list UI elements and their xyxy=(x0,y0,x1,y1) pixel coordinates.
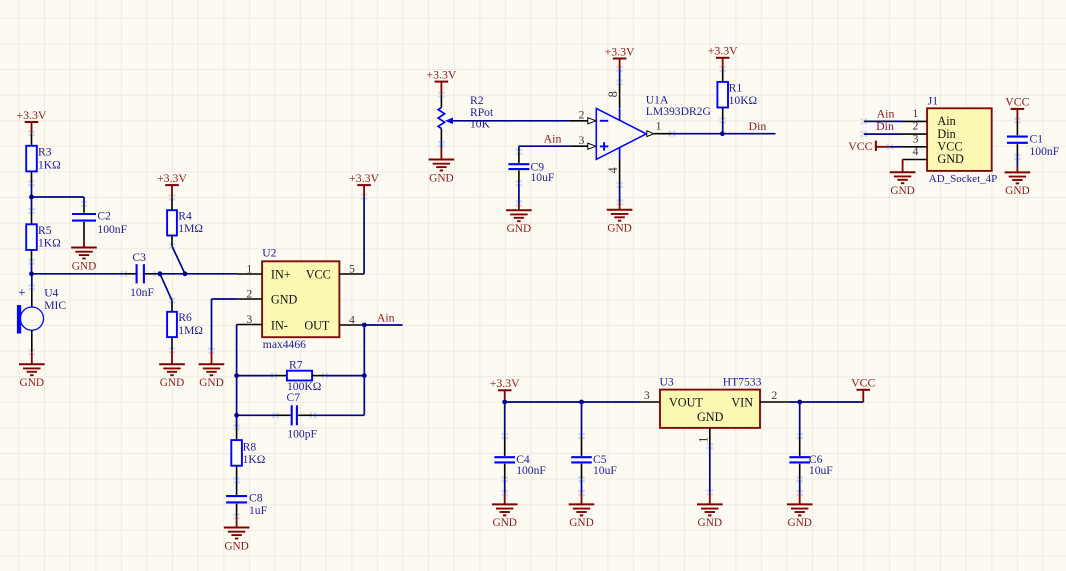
svg-text:GND: GND xyxy=(697,410,724,424)
svg-text:1MΩ: 1MΩ xyxy=(178,222,203,235)
svg-text:4: 4 xyxy=(606,166,620,173)
svg-text:IN-: IN- xyxy=(271,318,288,332)
svg-text:GND: GND xyxy=(271,292,298,306)
svg-text:GND: GND xyxy=(20,377,44,389)
svg-text:R1: R1 xyxy=(729,82,743,95)
svg-text:HT7533: HT7533 xyxy=(723,375,762,388)
svg-text:4: 4 xyxy=(912,144,918,158)
svg-text:100nF: 100nF xyxy=(516,464,546,477)
svg-text:GND: GND xyxy=(199,377,223,389)
svg-text:GND: GND xyxy=(507,223,531,235)
svg-text:1: 1 xyxy=(656,118,662,132)
svg-text:1KΩ: 1KΩ xyxy=(38,158,61,171)
svg-text:4: 4 xyxy=(349,313,355,327)
svg-text:Din: Din xyxy=(876,119,894,133)
svg-text:1KΩ: 1KΩ xyxy=(38,237,61,250)
svg-text:1: 1 xyxy=(246,262,252,276)
svg-text:U2: U2 xyxy=(262,246,276,259)
svg-text:GND: GND xyxy=(224,540,248,552)
svg-text:Ain: Ain xyxy=(544,132,562,146)
svg-text:+3.3V: +3.3V xyxy=(426,67,456,81)
svg-text:+3.3V: +3.3V xyxy=(605,44,635,58)
svg-text:1: 1 xyxy=(696,437,710,443)
svg-text:LM393DR2G: LM393DR2G xyxy=(646,105,712,118)
svg-text:3: 3 xyxy=(644,388,650,402)
svg-text:IN+: IN+ xyxy=(271,267,291,281)
svg-text:1KΩ: 1KΩ xyxy=(243,453,266,466)
svg-text:GND: GND xyxy=(72,260,96,272)
svg-text:8: 8 xyxy=(606,91,620,97)
svg-text:R8: R8 xyxy=(243,440,257,453)
svg-text:GND: GND xyxy=(937,152,964,166)
svg-text:J1: J1 xyxy=(928,95,939,108)
svg-text:3: 3 xyxy=(246,312,252,326)
svg-text:+: + xyxy=(18,284,25,299)
svg-text:C1: C1 xyxy=(1030,133,1044,146)
svg-text:GND: GND xyxy=(160,377,184,389)
svg-text:10uF: 10uF xyxy=(809,464,833,477)
svg-text:GND: GND xyxy=(787,517,811,529)
svg-text:+3.3V: +3.3V xyxy=(17,108,47,122)
svg-text:10nF: 10nF xyxy=(130,286,154,299)
svg-text:C7: C7 xyxy=(287,391,301,404)
svg-text:VCC: VCC xyxy=(1005,95,1029,109)
svg-text:2: 2 xyxy=(579,107,585,121)
svg-text:R7: R7 xyxy=(289,358,303,371)
svg-text:C3: C3 xyxy=(132,251,146,264)
svg-text:MIC: MIC xyxy=(44,299,66,312)
svg-text:2: 2 xyxy=(246,287,252,301)
svg-text:100nF: 100nF xyxy=(97,223,127,236)
svg-text:R6: R6 xyxy=(178,311,192,324)
svg-text:GND: GND xyxy=(1005,185,1029,197)
svg-text:+3.3V: +3.3V xyxy=(349,171,379,185)
svg-text:GND: GND xyxy=(429,172,453,184)
svg-text:max4466: max4466 xyxy=(263,338,306,351)
svg-text:C8: C8 xyxy=(249,492,263,505)
svg-text:GND: GND xyxy=(698,517,722,529)
svg-text:10uF: 10uF xyxy=(531,171,555,184)
svg-text:10uF: 10uF xyxy=(593,464,617,477)
svg-text:R3: R3 xyxy=(38,146,52,159)
svg-text:VIN: VIN xyxy=(731,395,753,409)
svg-text:+3.3V: +3.3V xyxy=(157,171,187,185)
svg-text:U3: U3 xyxy=(660,375,674,388)
svg-text:GND: GND xyxy=(569,517,593,529)
svg-text:10K: 10K xyxy=(470,118,491,131)
svg-text:OUT: OUT xyxy=(304,318,330,332)
svg-text:Ain: Ain xyxy=(377,311,395,325)
svg-text:+3.3V: +3.3V xyxy=(708,44,738,58)
svg-text:100pF: 100pF xyxy=(287,427,317,440)
svg-text:VCC: VCC xyxy=(306,267,331,281)
svg-text:3: 3 xyxy=(579,133,585,147)
svg-text:U4: U4 xyxy=(44,287,58,300)
svg-text:10KΩ: 10KΩ xyxy=(729,94,758,107)
svg-text:1MΩ: 1MΩ xyxy=(178,324,203,337)
svg-text:VCC: VCC xyxy=(851,376,875,390)
svg-text:5: 5 xyxy=(349,262,355,276)
svg-text:VOUT: VOUT xyxy=(669,395,703,409)
svg-text:AD_Socket_4P: AD_Socket_4P xyxy=(929,173,997,185)
svg-text:C2: C2 xyxy=(97,210,111,223)
svg-text:100nF: 100nF xyxy=(1030,145,1060,158)
svg-text:VCC: VCC xyxy=(848,139,872,153)
svg-text:+3.3V: +3.3V xyxy=(490,376,520,390)
svg-text:R4: R4 xyxy=(178,210,192,223)
svg-text:Din: Din xyxy=(749,119,767,133)
svg-text:GND: GND xyxy=(492,517,516,529)
svg-text:2: 2 xyxy=(771,388,777,402)
svg-text:R5: R5 xyxy=(38,224,52,237)
svg-text:GND: GND xyxy=(890,185,914,197)
svg-text:1uF: 1uF xyxy=(249,504,268,517)
svg-text:GND: GND xyxy=(607,223,631,235)
